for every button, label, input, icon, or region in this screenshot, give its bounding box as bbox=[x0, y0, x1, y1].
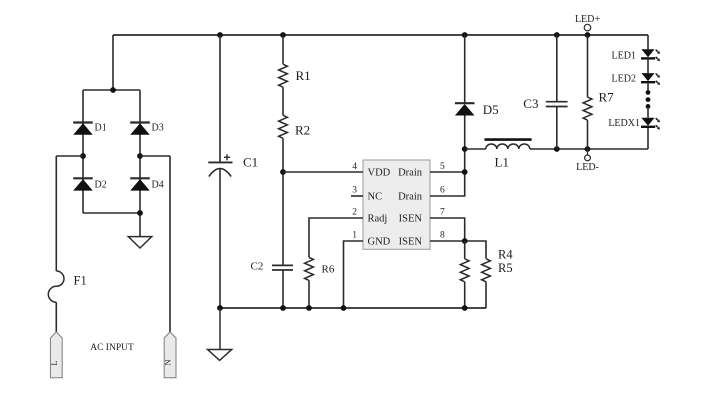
wire dots to LEDX1 bbox=[647, 109, 649, 118]
svg-text:Radj: Radj bbox=[368, 214, 388, 225]
diode D2 bbox=[73, 177, 93, 179]
resistor R7 bbox=[587, 35, 589, 97]
pin 4 wire VDD bbox=[283, 171, 363, 173]
diode D3 bbox=[130, 121, 150, 123]
svg-text:R6: R6 bbox=[322, 264, 335, 276]
node bridge mid-right bbox=[137, 153, 143, 159]
node top rail LED+ bbox=[585, 32, 591, 38]
fuse F1 bbox=[48, 271, 64, 302]
svg-text:6: 6 bbox=[440, 186, 445, 196]
resistor R4 bbox=[464, 241, 466, 259]
wire bridge bottom bbox=[83, 212, 140, 214]
svg-text:GND: GND bbox=[368, 237, 391, 248]
svg-text:R5: R5 bbox=[498, 261, 513, 275]
svg-text:D5: D5 bbox=[483, 102, 499, 117]
svg-text:LED1: LED1 bbox=[612, 50, 636, 61]
wire mid-right to N branch bbox=[140, 155, 170, 157]
node LED- rail C3 bbox=[554, 146, 560, 152]
svg-text:ISEN: ISEN bbox=[399, 214, 423, 225]
svg-text:NC: NC bbox=[368, 192, 383, 203]
svg-text:ISEN: ISEN bbox=[399, 237, 423, 248]
resistor R2 bbox=[279, 115, 288, 138]
svg-text:C2: C2 bbox=[251, 261, 264, 273]
wire R1-R2 bbox=[282, 87, 284, 115]
capacitor C2 bbox=[272, 264, 293, 266]
wire D5 bottom bbox=[464, 116, 466, 150]
svg-text:1: 1 bbox=[352, 231, 357, 241]
svg-text:R4: R4 bbox=[498, 248, 513, 262]
pin 3 stub NC bbox=[351, 195, 363, 197]
svg-text:D1: D1 bbox=[95, 123, 107, 134]
wire bridge top bbox=[83, 89, 140, 91]
svg-text:AC INPUT: AC INPUT bbox=[90, 343, 134, 353]
ground bridge bbox=[128, 237, 151, 248]
node pin5 junction bbox=[462, 169, 468, 175]
LED LED1 bbox=[641, 49, 654, 57]
wire bottom rail bbox=[220, 307, 486, 309]
node bridge mid-left bbox=[80, 153, 86, 159]
svg-text:R2: R2 bbox=[295, 123, 310, 138]
svg-text:D3: D3 bbox=[152, 123, 164, 134]
node bottom R6 bbox=[306, 305, 312, 311]
node bottom R4 bbox=[462, 305, 468, 311]
resistor R6 bbox=[305, 257, 314, 280]
LED LED2 bbox=[641, 73, 654, 81]
svg-text:F1: F1 bbox=[74, 274, 87, 288]
pin 8 wire ISEN bbox=[430, 241, 486, 259]
wire LED1-LED2 bbox=[647, 60, 649, 74]
node R2-VDD junction bbox=[280, 169, 286, 175]
svg-text:Drain: Drain bbox=[398, 192, 423, 203]
resistor R1 bbox=[279, 64, 288, 87]
svg-text:LED2: LED2 bbox=[612, 73, 636, 84]
node top rail R1 bbox=[280, 32, 286, 38]
LED LEDX1 bbox=[641, 118, 654, 126]
node D5-L1 junction bbox=[462, 146, 468, 152]
node bottom C1 bbox=[217, 305, 223, 311]
node pin7-pin8 junction bbox=[462, 238, 468, 244]
wire bridge right leg bbox=[139, 90, 141, 237]
svg-text:D4: D4 bbox=[152, 180, 164, 191]
diode D1 bbox=[73, 121, 93, 123]
svg-text:LEDX1: LEDX1 bbox=[608, 118, 640, 129]
wire fuse to L terminal bbox=[55, 302, 57, 332]
svg-text:L: L bbox=[49, 360, 59, 365]
svg-text:N: N bbox=[163, 359, 173, 365]
terminal L bbox=[50, 332, 62, 378]
wire LED- rail bbox=[530, 148, 648, 150]
svg-text:2: 2 bbox=[352, 208, 357, 218]
wire LED2 to dots bbox=[647, 83, 649, 90]
wire R1 top bbox=[282, 35, 284, 64]
capacitor C1 bbox=[219, 35, 221, 162]
pin 5 wire Drain bbox=[430, 171, 465, 173]
wire LEDX1 to LED- rail bbox=[647, 128, 649, 149]
svg-text:4: 4 bbox=[352, 162, 357, 172]
diode D5 bbox=[455, 102, 475, 104]
terminal LED+ bbox=[584, 24, 591, 31]
wire top rail to LED string bbox=[647, 35, 649, 49]
node bridge bottom junction bbox=[137, 210, 143, 216]
svg-text:7: 7 bbox=[440, 208, 445, 218]
svg-text:D2: D2 bbox=[95, 180, 107, 191]
diode D4 bbox=[130, 177, 150, 179]
svg-text:C3: C3 bbox=[523, 96, 538, 111]
svg-text:VDD: VDD bbox=[368, 168, 391, 179]
pin 6 wire Drain bbox=[430, 149, 465, 196]
svg-text:LED+: LED+ bbox=[575, 14, 600, 25]
svg-text:5: 5 bbox=[440, 162, 445, 172]
ground main bbox=[219, 308, 221, 350]
svg-text:R1: R1 bbox=[296, 68, 311, 83]
wire D5 top bbox=[464, 35, 466, 103]
node bottom GND pin bbox=[341, 305, 347, 311]
pin 7 wire ISEN bbox=[430, 218, 465, 241]
node top rail C1 bbox=[217, 32, 223, 38]
pin 1 wire GND bbox=[344, 241, 364, 308]
svg-text:8: 8 bbox=[440, 231, 445, 241]
wire R2 to C2 bbox=[282, 138, 284, 265]
svg-text:3: 3 bbox=[352, 186, 357, 196]
wire mid-left to L branch bbox=[56, 155, 83, 157]
svg-text:LED-: LED- bbox=[576, 162, 599, 173]
wire bridge left leg bbox=[82, 90, 84, 213]
svg-text:L1: L1 bbox=[495, 155, 509, 170]
svg-text:C1: C1 bbox=[243, 155, 258, 170]
inductor L1 bbox=[486, 144, 530, 149]
svg-text:R7: R7 bbox=[599, 90, 615, 105]
pin 2 wire Radj bbox=[309, 218, 363, 257]
node top rail C3 bbox=[554, 32, 560, 38]
node bottom C2 bbox=[280, 305, 286, 311]
node top rail D5 bbox=[462, 32, 468, 38]
capacitor C3 bbox=[556, 35, 558, 102]
ellipsis dots bbox=[646, 90, 651, 95]
terminal LED- bbox=[587, 149, 589, 155]
wire top rail bbox=[113, 34, 648, 36]
wire top rail left drop to bridge bbox=[112, 35, 114, 90]
svg-text:Drain: Drain bbox=[398, 168, 423, 179]
terminal N bbox=[164, 332, 176, 378]
resistor R5 bbox=[482, 259, 491, 282]
node LED- rail R7 bbox=[585, 146, 591, 152]
op-amp U1 box bbox=[363, 160, 430, 249]
wire node to L1 bbox=[465, 148, 486, 150]
node bridge top junction bbox=[110, 87, 116, 93]
